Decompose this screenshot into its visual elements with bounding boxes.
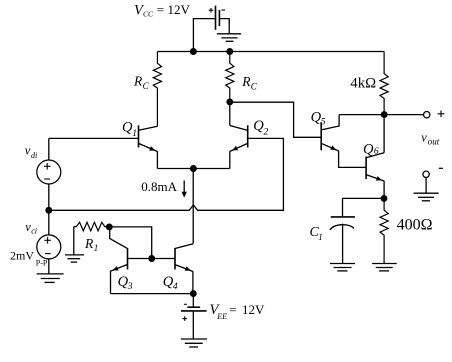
capacitor C1 xyxy=(330,217,355,230)
junction (Q2 collector node) xyxy=(227,99,233,105)
svg-text:5: 5 xyxy=(321,117,326,127)
wire Q2 base to common node (with hop over tail) xyxy=(49,138,284,210)
svg-text:R: R xyxy=(133,74,143,89)
svg-text:2mV: 2mV xyxy=(10,249,34,263)
current arrow 0.8mA xyxy=(183,181,185,193)
svg-text:v: v xyxy=(421,131,427,145)
label Q2 xyxy=(253,118,268,138)
source vdi xyxy=(37,160,61,184)
svg-text:v: v xyxy=(25,144,31,158)
svg-text:12V: 12V xyxy=(168,2,191,17)
svg-text:R: R xyxy=(84,236,94,251)
svg-text:C: C xyxy=(143,81,150,91)
svg-text:1: 1 xyxy=(94,243,99,253)
transistor Q6 xyxy=(366,115,384,199)
svg-text:6: 6 xyxy=(374,147,379,157)
resistor 400 xyxy=(380,198,388,263)
svg-text:EE: EE xyxy=(216,312,227,321)
svg-text:1: 1 xyxy=(318,232,323,242)
svg-text:=: = xyxy=(157,2,164,17)
ground (- terminal) xyxy=(414,193,439,201)
ground (R1) xyxy=(65,255,84,262)
label vci xyxy=(25,220,37,236)
label RC right xyxy=(241,74,258,92)
terminal + (vout) xyxy=(424,112,430,118)
wire junction to base node xyxy=(109,227,151,259)
label Q3 xyxy=(118,274,133,292)
label vout xyxy=(421,131,440,147)
wire node to C1 xyxy=(343,198,385,217)
battery B1 (VCC supply) xyxy=(216,6,220,30)
wire emitter rail Q1-Q2 xyxy=(157,168,229,170)
label 0.8mA xyxy=(141,179,177,194)
svg-text:0.8mA: 0.8mA xyxy=(141,179,177,194)
wire VCC battery + to top rail xyxy=(193,19,215,52)
resistor RC right xyxy=(226,52,234,102)
svg-text:CC: CC xyxy=(143,10,154,19)
label Q5 xyxy=(311,110,326,128)
transistor Q4 xyxy=(152,244,194,294)
wire vdi to Q1 base xyxy=(49,137,139,139)
wire tail (to Q4 collector) xyxy=(192,169,194,244)
svg-text:1: 1 xyxy=(132,129,137,139)
svg-text:2: 2 xyxy=(264,128,269,138)
svg-text:R: R xyxy=(241,74,251,89)
wire vdi bottom to common node xyxy=(48,184,50,235)
label 2mV p-p xyxy=(10,249,48,268)
junction (emitter rail / tail) xyxy=(191,166,197,172)
junction (Q6 emitter node) xyxy=(381,196,387,202)
junction (common node) xyxy=(46,208,52,214)
label 400Ohm xyxy=(397,216,433,233)
svg-text:400Ω: 400Ω xyxy=(397,216,433,233)
svg-text:Q: Q xyxy=(363,141,374,157)
label RC left xyxy=(133,74,150,92)
wire bottom rail xyxy=(111,293,194,295)
resistor RC left xyxy=(153,52,161,127)
wire Q2 collector node to Q5 base xyxy=(230,102,321,137)
svg-text:4: 4 xyxy=(173,282,178,292)
transistor Q1 xyxy=(139,125,158,168)
resistor 4k xyxy=(380,52,388,115)
wire C1 to ground xyxy=(342,224,344,264)
label VEE = 12V xyxy=(210,302,266,321)
terminal - (vout) xyxy=(423,171,429,177)
junction (R1 / Q3 collector / bases) xyxy=(107,224,113,230)
svg-text:P-P: P-P xyxy=(36,259,48,268)
transistor Q2 xyxy=(230,102,248,169)
svg-text:C: C xyxy=(251,81,258,91)
svg-text:di: di xyxy=(31,151,37,160)
transistor Q3 xyxy=(110,227,152,294)
label Q6 xyxy=(363,141,379,157)
svg-text:3: 3 xyxy=(127,282,133,292)
svg-text:=: = xyxy=(229,302,236,317)
junction (bottom rail / VEE) xyxy=(191,291,197,297)
svg-text:12V: 12V xyxy=(242,302,265,317)
junction (rail / VCC) xyxy=(191,49,197,55)
svg-text:4kΩ: 4kΩ xyxy=(350,76,376,92)
label Q1 xyxy=(122,119,137,139)
battery B2 (VEE supply) xyxy=(181,307,207,311)
wire vdi top xyxy=(48,138,50,160)
label R1 xyxy=(84,236,98,253)
wire vci to ground xyxy=(48,259,50,274)
label vdi xyxy=(25,144,37,160)
ground (VEE) xyxy=(181,339,207,347)
ground (vci) xyxy=(37,274,64,283)
junction (output node) xyxy=(381,112,387,118)
wire output node to + terminal xyxy=(384,114,423,116)
transistor Q5 xyxy=(321,115,384,168)
label VCC = 12V xyxy=(134,2,191,19)
label Q4 xyxy=(163,274,178,292)
svg-text:ci: ci xyxy=(31,227,37,236)
wire top rail xyxy=(158,51,385,53)
source vci xyxy=(37,235,61,259)
ground (C1) xyxy=(330,264,355,271)
wire - terminal to ground xyxy=(425,178,427,194)
junction (Q3/Q4 base node) xyxy=(149,256,155,262)
wire VCC battery - to ground xyxy=(219,19,229,34)
ground (400) xyxy=(372,264,397,271)
resistor R1 xyxy=(74,222,109,231)
ground (VCC battery) xyxy=(217,34,241,42)
svg-text:out: out xyxy=(428,137,440,147)
label 4kOhm xyxy=(350,76,376,92)
wire rail to VEE battery xyxy=(192,294,194,308)
wire VEE battery to ground xyxy=(192,311,194,339)
junction (rail / RC right) xyxy=(227,49,233,55)
label C1 xyxy=(310,225,323,242)
wire R1 left to ground xyxy=(73,227,75,255)
